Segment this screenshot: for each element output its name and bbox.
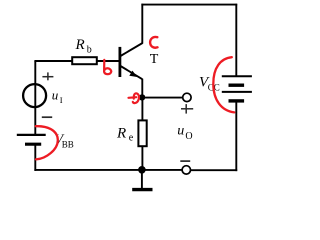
label plus output bbox=[181, 108, 193, 110]
wire top horizontal bbox=[141, 4, 237, 6]
wire bottom main bbox=[34, 169, 182, 171]
battery VCC plate short 2 bbox=[229, 99, 245, 102]
svg-text:u: u bbox=[52, 88, 59, 103]
battery VCC plate long 1 bbox=[222, 75, 252, 77]
svg-text:u: u bbox=[177, 123, 184, 138]
svg-text:R: R bbox=[116, 125, 126, 141]
transistor Q1 base bar bbox=[119, 47, 122, 77]
wire collector vertical bbox=[141, 4, 143, 44]
battery VCC plate long 2 bbox=[222, 91, 252, 93]
wire left vertical lower bbox=[34, 144, 36, 171]
wire left vertical upper bbox=[34, 61, 36, 135]
transistor Q1 emitter arrow bbox=[129, 71, 137, 77]
svg-text:e: e bbox=[129, 133, 134, 144]
svg-text:b: b bbox=[87, 45, 92, 56]
label minus input bbox=[42, 116, 52, 118]
wire Rb to base bbox=[97, 60, 119, 62]
annotation red c bbox=[150, 37, 157, 48]
svg-text:O: O bbox=[185, 131, 192, 142]
annotation red arc VBB bbox=[36, 126, 58, 159]
junction node e dot bbox=[139, 94, 145, 100]
annotation red e bbox=[129, 93, 139, 103]
annotation red b bbox=[104, 60, 111, 74]
label minus output bbox=[180, 160, 190, 162]
annotation red arc VCC bbox=[213, 57, 234, 112]
wire right vertical upper bbox=[235, 4, 237, 77]
svg-text:BB: BB bbox=[62, 139, 74, 149]
terminal plus circle bbox=[183, 93, 191, 101]
svg-text:T: T bbox=[150, 52, 159, 67]
ground bar bbox=[132, 188, 152, 191]
ground stem bbox=[141, 170, 143, 188]
svg-text:R: R bbox=[75, 37, 85, 53]
wire Re to bottom bbox=[141, 146, 143, 170]
source uI circle bbox=[23, 84, 46, 107]
wire top-left horizontal to Rb bbox=[34, 60, 72, 62]
battery VBB plate short bbox=[25, 143, 41, 146]
label plus input bbox=[42, 76, 53, 78]
wire e-node to plus terminal bbox=[142, 97, 183, 99]
junction bottom dot bbox=[138, 166, 146, 174]
wire right vertical lower bbox=[235, 101, 237, 171]
terminal minus circle bbox=[182, 166, 190, 174]
resistor Rb bbox=[72, 57, 97, 64]
wire emitter vertical bbox=[141, 79, 143, 98]
wire e-node to Re bbox=[141, 97, 143, 120]
battery VBB plate long bbox=[17, 134, 46, 136]
wire bottom right bbox=[191, 169, 237, 171]
svg-text:I: I bbox=[60, 95, 63, 105]
resistor Re bbox=[138, 120, 146, 146]
transistor Q1 emitter diagonal bbox=[121, 66, 143, 79]
transistor Q1 collector diagonal bbox=[121, 43, 143, 56]
battery VCC plate short 1 bbox=[229, 83, 245, 86]
